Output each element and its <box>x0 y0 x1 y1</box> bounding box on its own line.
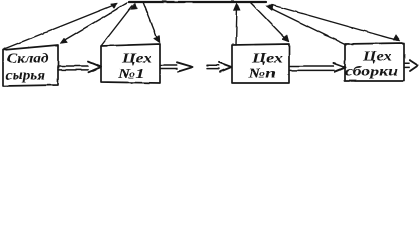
svg-text:Цех: Цех <box>362 49 393 64</box>
svg-text:Цех: Цех <box>121 50 153 65</box>
svg-text:сырья: сырья <box>6 67 46 82</box>
svg-text:№1: №1 <box>117 66 145 81</box>
svg-text:Склад: Склад <box>7 50 49 65</box>
svg-text:Цех: Цех <box>251 50 284 65</box>
svg-text:сборки: сборки <box>345 63 399 78</box>
svg-text:№п: №п <box>247 66 276 81</box>
